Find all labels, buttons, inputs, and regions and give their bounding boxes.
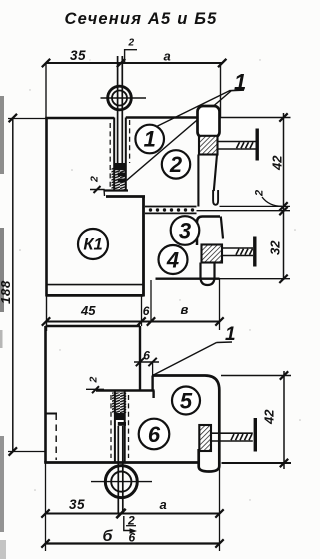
svg-text:188: 188 <box>0 280 13 304</box>
extension right bottom <box>219 463 221 551</box>
svg-text:2: 2 <box>169 152 183 177</box>
seam bottom: panel edges <box>115 391 125 463</box>
circle 6 <box>139 419 170 450</box>
svg-text:3: 3 <box>179 219 191 244</box>
anchor rod 1/2 <box>218 142 256 150</box>
svg-text:35: 35 <box>70 48 86 63</box>
anchor rod 5/6 <box>211 433 253 441</box>
dim 42 bottom right <box>283 371 285 469</box>
tick top-right <box>218 59 226 67</box>
bottom dim line 35/a <box>46 513 221 515</box>
frame 3/4 tail <box>201 263 215 286</box>
seam bottom dashed <box>111 395 129 458</box>
callout 1 top with leaders <box>153 91 231 129</box>
anchor plate 3/4 <box>202 245 223 263</box>
32 top extension line <box>197 210 291 212</box>
svg-text:6: 6 <box>143 349 150 363</box>
seam sealant hatch top <box>112 168 127 191</box>
svg-text:2: 2 <box>89 176 101 183</box>
svg-text:42: 42 <box>262 409 277 425</box>
anchor T-bar 5/6 <box>254 418 257 452</box>
circle 4 <box>159 245 188 274</box>
scan artifact left edge <box>0 96 6 559</box>
seam panel edges top <box>114 118 126 192</box>
bolt shaft bottom <box>118 426 123 514</box>
seam nut top <box>115 163 126 170</box>
svg-text:6: 6 <box>148 422 161 447</box>
circle 5 <box>172 387 200 415</box>
step line bottom section <box>96 389 155 392</box>
bottom dim line b <box>45 542 220 544</box>
panel K1 outline <box>45 118 197 332</box>
188 dimension left <box>12 118 14 452</box>
anchor rod 3/4 <box>222 248 253 256</box>
svg-text:К1: К1 <box>83 236 102 254</box>
lower panel outline <box>44 326 199 551</box>
scan noise speckles <box>19 59 301 500</box>
profile 5/6 outline <box>153 376 220 472</box>
top dimension line 35 / a <box>46 62 224 64</box>
profile 3/4 <box>197 217 223 246</box>
svg-text:42: 42 <box>270 155 285 171</box>
dim 6 bottom step <box>134 361 159 363</box>
svg-text:б: б <box>103 528 114 545</box>
svg-text:в: в <box>181 302 189 317</box>
svg-text:45: 45 <box>80 303 96 318</box>
bolt top <box>101 86 147 110</box>
anchor T-bar 1/2 <box>256 129 259 161</box>
seam hidden dashed lines top <box>110 120 129 188</box>
svg-text:6: 6 <box>143 304 150 318</box>
circle 1 <box>135 125 164 154</box>
seam bottom nut <box>115 413 126 420</box>
bottom edge 3/4 <box>156 278 220 280</box>
sill strip with dots <box>145 207 197 214</box>
tick top-seam <box>117 59 125 67</box>
svg-text:2: 2 <box>128 38 135 49</box>
window head profile 1/2 <box>198 106 220 138</box>
svg-text:4: 4 <box>166 248 179 273</box>
bolt bottom <box>91 466 152 498</box>
anchor plate 1/2 <box>199 136 218 155</box>
svg-text:а: а <box>164 49 171 64</box>
svg-text:а: а <box>160 497 167 512</box>
svg-text:2: 2 <box>88 377 100 384</box>
svg-text:35: 35 <box>69 497 85 512</box>
svg-text:32: 32 <box>268 240 283 255</box>
dim 42 / 2 / 32 right top <box>283 113 285 280</box>
seam bottom sealant hatch <box>112 393 126 414</box>
bolt shaft lines top seam <box>118 56 123 164</box>
svg-text:Сечения А5 и Б5: Сечения А5 и Б5 <box>65 10 218 28</box>
frame 1/2 lower part <box>198 155 218 207</box>
circle 3 <box>171 216 200 245</box>
dimension line 45/6/v <box>46 321 221 323</box>
svg-text:2: 2 <box>254 190 266 197</box>
circle 2 <box>162 150 190 178</box>
svg-text:1: 1 <box>144 127 156 152</box>
tick top-left <box>42 59 50 67</box>
lower panel notch <box>46 413 58 415</box>
svg-text:5: 5 <box>180 389 193 414</box>
circle K1 <box>78 229 108 259</box>
anchor plate 5/6 <box>199 425 211 451</box>
anchor T-bar 3/4 <box>253 237 256 267</box>
